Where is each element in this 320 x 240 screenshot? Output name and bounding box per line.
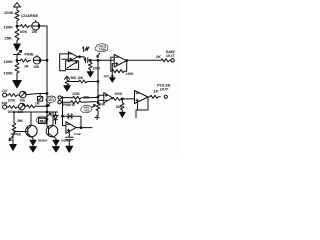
svg-text:100K: 100K (4, 71, 14, 76)
svg-text:56K 10K: 56K 10K (71, 76, 84, 80)
svg-text:100K: 100K (93, 67, 101, 71)
svg-text:100K: 100K (8, 99, 16, 103)
svg-text:TRIM: TRIM (99, 48, 106, 52)
svg-text:100K: 100K (20, 30, 28, 34)
svg-text:10K: 10K (20, 99, 27, 103)
svg-text:1M: 1M (24, 65, 29, 69)
svg-text:2.2uF: 2.2uF (74, 132, 81, 136)
svg-text:1M: 1M (35, 101, 40, 105)
svg-text:68K: 68K (83, 96, 90, 100)
svg-text:10K: 10K (34, 65, 41, 69)
svg-text:100K: 100K (4, 59, 14, 64)
svg-text:100K: 100K (115, 92, 123, 96)
svg-text:62K: 62K (116, 105, 123, 109)
svg-text:220K: 220K (72, 92, 80, 96)
svg-text:OUT: OUT (160, 87, 169, 92)
svg-text:24K: 24K (100, 103, 107, 107)
svg-text:CV: CV (2, 88, 8, 93)
svg-text:100K: 100K (8, 110, 16, 114)
svg-text:ADJ: ADJ (48, 98, 54, 102)
svg-text:1K: 1K (17, 132, 22, 136)
svg-text:25K: 25K (5, 36, 12, 41)
svg-text:FINE: FINE (25, 52, 34, 57)
svg-text:ADJ: ADJ (84, 108, 90, 112)
svg-text:ADJ: ADJ (39, 119, 45, 123)
svg-text:100K: 100K (126, 72, 134, 76)
svg-text:10K: 10K (32, 30, 39, 34)
svg-text:PWM IN: PWM IN (63, 103, 76, 107)
svg-text:+2V: +2V (103, 74, 110, 78)
svg-text:OUT: OUT (166, 53, 175, 58)
svg-text:100K: 100K (4, 10, 14, 15)
svg-text:2N3904: 2N3904 (61, 138, 71, 142)
svg-text:1N914: 1N914 (51, 113, 59, 117)
svg-text:COARSE: COARSE (21, 13, 38, 18)
svg-text:10K: 10K (18, 110, 25, 114)
svg-text:2N3904: 2N3904 (38, 138, 48, 142)
svg-text:FM: FM (2, 100, 8, 105)
svg-text:39K: 39K (17, 119, 24, 123)
svg-text:100K: 100K (4, 25, 14, 30)
